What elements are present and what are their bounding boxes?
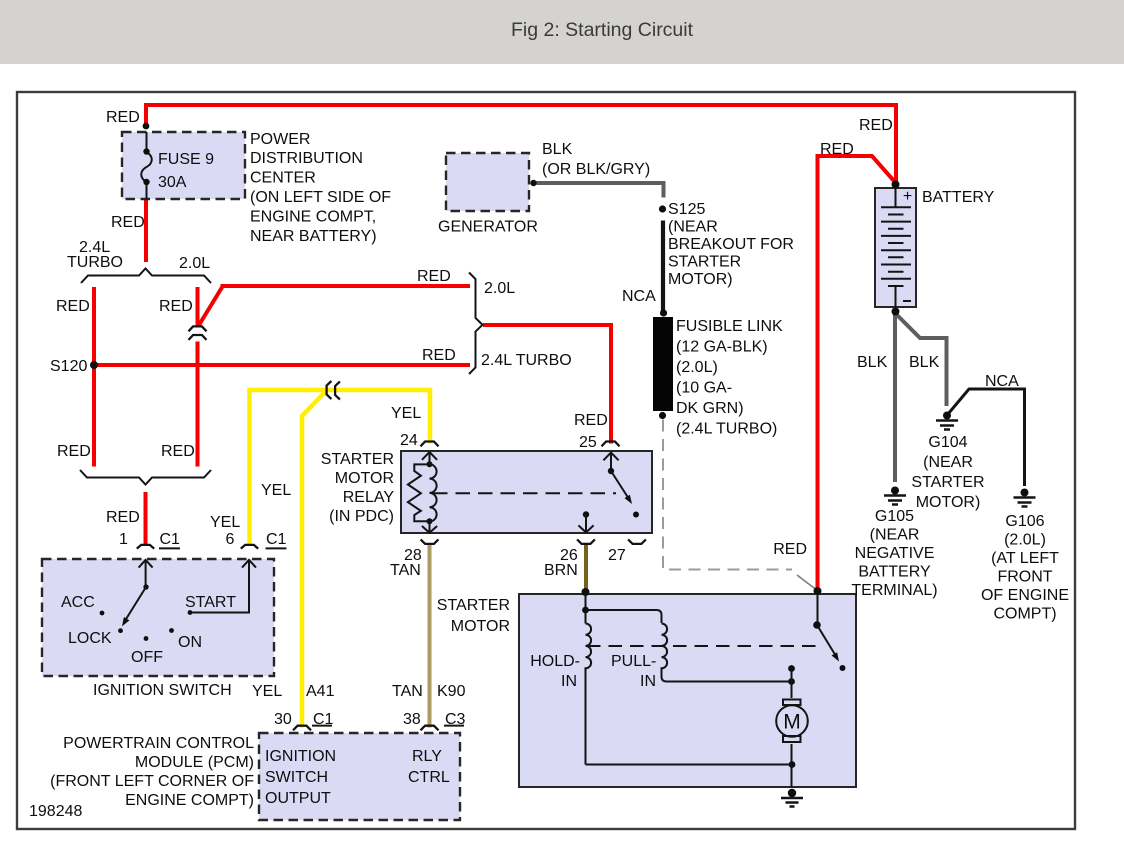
svg-text:RED: RED xyxy=(161,443,195,460)
svg-text:NCA: NCA xyxy=(622,288,656,305)
svg-text:YEL: YEL xyxy=(252,683,282,700)
starter hold-in winding xyxy=(586,624,592,765)
svg-text:NCA: NCA xyxy=(985,373,1019,390)
relay pin 25 xyxy=(602,442,620,447)
svg-text:BLK: BLK xyxy=(909,354,940,371)
svg-text:C1: C1 xyxy=(266,531,287,548)
svg-text:CENTER: CENTER xyxy=(250,170,316,187)
svg-text:A41: A41 xyxy=(306,683,335,700)
relay switch xyxy=(603,453,639,518)
starter linkage dashed xyxy=(587,645,820,647)
svg-text:RED: RED xyxy=(820,141,854,158)
label G104 xyxy=(911,434,984,511)
svg-text:TERMINAL): TERMINAL) xyxy=(851,582,937,599)
svg-text:ON: ON xyxy=(178,634,202,651)
svg-text:IGNITION: IGNITION xyxy=(265,748,336,765)
svg-text:NEAR BATTERY): NEAR BATTERY) xyxy=(250,228,377,245)
wire RED battery to starter solenoid xyxy=(818,156,895,589)
ignition switch rotor arm xyxy=(122,560,153,627)
svg-text:BREAKOUT FOR: BREAKOUT FOR xyxy=(668,236,794,253)
starter solenoid switch xyxy=(813,587,845,671)
wire starter motor return xyxy=(586,764,793,766)
wire RED 2.4L turbo branch vertical xyxy=(92,287,96,467)
svg-text:SWITCH: SWITCH xyxy=(265,769,328,786)
svg-text:(2.0L): (2.0L) xyxy=(676,359,718,376)
svg-text:(NEAR: (NEAR xyxy=(668,219,718,236)
svg-text:FUSE 9: FUSE 9 xyxy=(158,151,214,168)
label PCM rly ctrl xyxy=(408,748,450,786)
svg-text:STARTER: STARTER xyxy=(668,254,741,271)
node battery negative xyxy=(892,308,900,316)
battery cell plates xyxy=(881,188,911,307)
wire BLK battery to G105 xyxy=(893,313,897,482)
svg-text:(ON LEFT SIDE OF: (ON LEFT SIDE OF xyxy=(250,189,391,206)
svg-text:STARTER: STARTER xyxy=(437,597,510,614)
svg-text:RED: RED xyxy=(859,117,893,134)
label fusible link xyxy=(676,318,783,438)
svg-text:M: M xyxy=(783,711,801,734)
svg-text:MOTOR: MOTOR xyxy=(335,470,394,487)
svg-text:(NEAR: (NEAR xyxy=(923,454,973,471)
relay coil branch xyxy=(408,452,437,533)
svg-text:TAN: TAN xyxy=(390,562,421,579)
svg-text:IGNITION SWITCH: IGNITION SWITCH xyxy=(93,682,232,699)
wire RED 2.0L branch vertical upper xyxy=(196,287,200,326)
relay pin 26 contact xyxy=(578,511,593,532)
svg-text:OFF: OFF xyxy=(131,649,163,666)
label power distribution center xyxy=(250,131,391,245)
svg-text:ENGINE COMPT,: ENGINE COMPT, xyxy=(250,209,376,226)
svg-text:C1: C1 xyxy=(160,531,181,548)
node fusible link top xyxy=(660,309,667,316)
ignition position contacts xyxy=(100,610,193,641)
svg-text:(12 GA-BLK): (12 GA-BLK) xyxy=(676,339,768,356)
label PCM ignition switch output xyxy=(265,748,336,807)
svg-text:27: 27 xyxy=(608,547,626,564)
svg-text:RED: RED xyxy=(111,214,145,231)
wire YEL ignition switch pin 6 to relay pin 24 xyxy=(250,390,431,545)
svg-text:CTRL: CTRL xyxy=(408,769,450,786)
svg-text:RED: RED xyxy=(417,268,451,285)
svg-text:1: 1 xyxy=(119,531,128,548)
svg-text:DISTRIBUTION: DISTRIBUTION xyxy=(250,150,363,167)
svg-text:TURBO: TURBO xyxy=(67,254,123,271)
node S120 xyxy=(90,361,98,369)
svg-text:MOTOR): MOTOR) xyxy=(916,494,981,511)
svg-text:POWER: POWER xyxy=(250,131,310,148)
battery BATT box xyxy=(875,188,916,307)
wire BLK S125 to fusible link xyxy=(661,221,665,316)
wire RED to ignition switch pin 1 xyxy=(144,492,148,545)
svg-text:FUSIBLE LINK: FUSIBLE LINK xyxy=(676,318,783,335)
relay coil resistor xyxy=(408,464,430,521)
svg-text:G105: G105 xyxy=(875,508,914,525)
svg-text:2.0L: 2.0L xyxy=(484,280,515,297)
svg-text:(10 GA-: (10 GA- xyxy=(676,380,732,397)
starter pull-in winding xyxy=(662,624,792,682)
svg-text:ENGINE COMPT): ENGINE COMPT) xyxy=(125,792,254,809)
svg-text:K90: K90 xyxy=(437,683,466,700)
node junction at fuse input xyxy=(143,123,150,130)
svg-text:IN: IN xyxy=(561,673,577,690)
node pull-in to motor junction xyxy=(788,678,795,685)
wire BLK battery to G104 xyxy=(896,314,947,406)
svg-text:25: 25 xyxy=(579,434,597,451)
svg-text:BLK: BLK xyxy=(857,354,888,371)
wire RED 2.0L branch vertical lower xyxy=(196,342,200,467)
wire RED S120 horizontal xyxy=(94,363,470,367)
svg-text:RED: RED xyxy=(56,298,90,315)
wire TAN relay pin 28 to PCM pin 38 xyxy=(428,543,432,728)
svg-text:BATTERY: BATTERY xyxy=(858,564,931,581)
svg-text:STARTER: STARTER xyxy=(321,451,394,468)
ground starter motor xyxy=(781,789,803,807)
svg-text:(OR BLK/GRY): (OR BLK/GRY) xyxy=(542,161,650,178)
svg-text:(AT LEFT: (AT LEFT xyxy=(991,550,1059,567)
svg-text:FRONT: FRONT xyxy=(997,569,1052,586)
svg-text:30: 30 xyxy=(274,711,292,728)
starter motor box xyxy=(519,594,856,787)
svg-text:IN: IN xyxy=(640,673,656,690)
svg-text:HOLD-: HOLD- xyxy=(530,653,580,670)
wire YEL to PCM pin 30 xyxy=(302,390,327,728)
label G105 xyxy=(851,508,937,599)
svg-text:(NEAR: (NEAR xyxy=(870,527,920,544)
node battery positive xyxy=(892,181,900,189)
svg-text:G106: G106 xyxy=(1005,513,1044,530)
node fusible link bottom xyxy=(659,412,666,419)
ground G106 xyxy=(1014,489,1036,507)
svg-text:RED: RED xyxy=(106,109,140,126)
svg-text:ACC: ACC xyxy=(61,594,95,611)
relay pin 24 xyxy=(421,442,439,447)
svg-text:30A: 30A xyxy=(158,174,187,191)
svg-text:(IN PDC): (IN PDC) xyxy=(329,508,394,525)
svg-text:RLY: RLY xyxy=(412,748,442,765)
svg-text:BLK: BLK xyxy=(542,141,573,158)
relay linkage dashed xyxy=(433,492,616,494)
label powertrain control module xyxy=(50,735,254,809)
svg-text:NEGATIVE: NEGATIVE xyxy=(855,545,935,562)
svg-text:MODULE (PCM): MODULE (PCM) xyxy=(135,754,254,771)
label starter motor xyxy=(437,597,510,635)
fuse F9 element xyxy=(141,132,152,199)
svg-text:2.0L: 2.0L xyxy=(179,255,210,272)
brace merge to ignition switch xyxy=(80,470,211,485)
svg-text:RED: RED xyxy=(159,298,193,315)
svg-text:RED: RED xyxy=(106,509,140,526)
starter motor M xyxy=(776,669,808,788)
ignition switch START feed xyxy=(190,560,256,613)
ignition switch box xyxy=(42,559,274,676)
wire RED 2.0L horizontal xyxy=(221,284,471,288)
wire BLK generator to S125 xyxy=(531,183,664,198)
svg-text:START: START xyxy=(185,594,236,611)
svg-text:(2.0L): (2.0L) xyxy=(1004,532,1046,549)
svg-text:OUTPUT: OUTPUT xyxy=(265,790,331,807)
svg-text:RED: RED xyxy=(57,443,91,460)
svg-text:TAN: TAN xyxy=(392,683,423,700)
svg-text:RELAY: RELAY xyxy=(343,489,395,506)
relay K1 box xyxy=(401,451,652,533)
node generator output xyxy=(530,180,536,186)
relay coil winding xyxy=(430,464,437,521)
battery minus terminal xyxy=(903,300,911,302)
svg-text:YEL: YEL xyxy=(261,482,291,499)
svg-text:MOTOR): MOTOR) xyxy=(668,271,733,288)
label HOLD-IN xyxy=(530,653,580,690)
wire NCA G104 to G106 xyxy=(948,389,1025,486)
svg-text:RED: RED xyxy=(574,412,608,429)
label starter motor relay xyxy=(321,451,395,525)
svg-text:COMPT): COMPT) xyxy=(993,606,1056,623)
fuse F9 box xyxy=(122,132,245,199)
wire RED battery feed top xyxy=(146,105,896,182)
svg-text:24: 24 xyxy=(400,432,418,449)
node starter motor contact xyxy=(788,665,795,672)
label G106 xyxy=(981,513,1069,623)
wire RED to relay pin 25 xyxy=(483,325,611,444)
svg-text:BRN: BRN xyxy=(544,562,578,579)
svg-text:6: 6 xyxy=(226,531,235,548)
ignition switch pin 6 xyxy=(241,545,258,549)
svg-text:+: + xyxy=(903,188,912,205)
svg-text:RED: RED xyxy=(773,541,807,558)
svg-text:YEL: YEL xyxy=(391,405,421,422)
svg-text:GENERATOR: GENERATOR xyxy=(438,219,538,236)
svg-text:(2.4L TURBO): (2.4L TURBO) xyxy=(676,421,777,438)
svg-text:2.4L TURBO: 2.4L TURBO xyxy=(481,352,572,369)
wire BRN relay pin 26 to starter motor xyxy=(584,543,588,591)
ground G105 xyxy=(884,487,906,505)
wire RED fuse output xyxy=(144,199,148,262)
break symbol on YEL wire xyxy=(327,381,340,400)
label S125 splice xyxy=(668,201,794,288)
PCM box xyxy=(259,733,460,820)
svg-text:S120: S120 xyxy=(50,358,87,375)
svg-text:G104: G104 xyxy=(928,434,967,451)
PCM pin 30 xyxy=(293,726,311,731)
break symbol on 2.0L vertical wire xyxy=(189,326,207,340)
relay pin 26 xyxy=(577,539,595,544)
brace fuse output split xyxy=(81,269,211,284)
wire RED 2.0L diagonal xyxy=(199,287,223,326)
svg-text:38: 38 xyxy=(403,711,421,728)
svg-text:POWERTRAIN CONTROL: POWERTRAIN CONTROL xyxy=(63,735,254,752)
svg-text:MOTOR: MOTOR xyxy=(451,618,510,635)
wire NCA dashed fusible link to starter solenoid xyxy=(663,420,792,570)
svg-text:DK GRN): DK GRN) xyxy=(676,400,744,417)
svg-text:PULL-: PULL- xyxy=(611,653,656,670)
starter coil feed xyxy=(582,592,661,624)
generator box xyxy=(446,153,529,211)
svg-text:(FRONT LEFT CORNER OF: (FRONT LEFT CORNER OF xyxy=(50,773,254,790)
ignition switch pin 1 xyxy=(137,545,154,549)
svg-text:BATTERY: BATTERY xyxy=(922,189,995,206)
svg-text:198248: 198248 xyxy=(29,803,82,820)
relay pin 27 xyxy=(628,539,646,544)
svg-text:YEL: YEL xyxy=(210,514,240,531)
svg-text:RED: RED xyxy=(422,347,456,364)
svg-text:LOCK: LOCK xyxy=(68,630,112,647)
node S125 xyxy=(659,205,666,212)
brace engine variant merge xyxy=(469,273,483,375)
ground G104 xyxy=(936,412,958,430)
relay pin 28 xyxy=(421,539,439,544)
svg-text:OF ENGINE: OF ENGINE xyxy=(981,587,1069,604)
svg-text:S125: S125 xyxy=(668,201,705,218)
node starter BRN input xyxy=(582,588,590,596)
svg-text:STARTER: STARTER xyxy=(911,474,984,491)
PCM pin 38 xyxy=(421,726,439,731)
fusible link xyxy=(653,317,673,411)
